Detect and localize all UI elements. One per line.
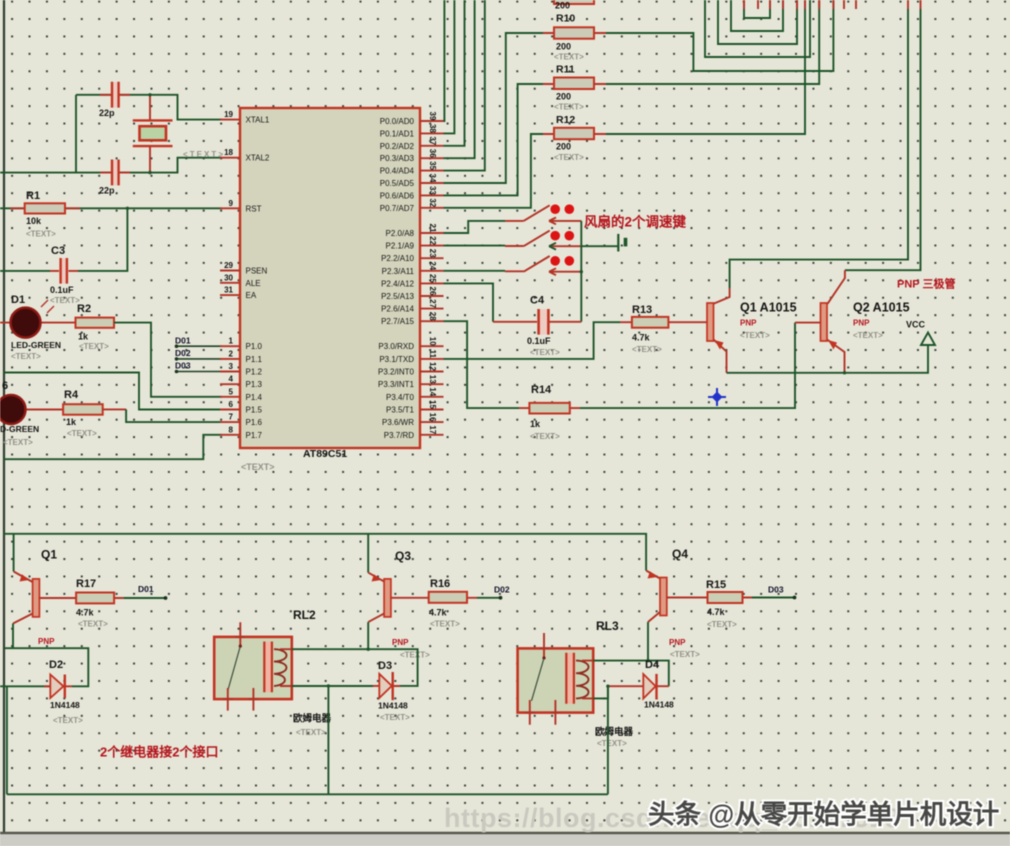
- wire P3.1 to R13: [444, 322, 621, 359]
- wire R10 right loop: [606, 0, 833, 71]
- wire P0.1 up: [444, 0, 455, 133]
- svg-text:4.7k: 4.7k: [76, 608, 95, 618]
- svg-text:<TEXT>: <TEXT>: [296, 728, 326, 737]
- wire U loop 3: [718, 0, 797, 44]
- svg-text:10: 10: [428, 337, 437, 346]
- svg-text:2: 2: [229, 349, 234, 358]
- svg-text:<TEXT>: <TEXT>: [554, 103, 584, 112]
- svg-text:ALE: ALE: [246, 279, 261, 288]
- svg-text:<TEXT>: <TEXT>: [3, 438, 33, 447]
- svg-text:8: 8: [229, 425, 234, 434]
- svg-text:39: 39: [428, 112, 437, 121]
- op-amp U1 AT89C51 body: [240, 108, 420, 448]
- pin 1 P1.0: [220, 345, 240, 347]
- wire R14 to Q2 base: [580, 323, 795, 409]
- svg-text:200: 200: [555, 1, 570, 11]
- svg-text:P2.2/A10: P2.2/A10: [381, 254, 414, 263]
- svg-text:<TEXT>: <TEXT>: [400, 651, 430, 660]
- svg-text:<TEXT>: <TEXT>: [530, 432, 560, 441]
- crystal X1 leads: [149, 95, 151, 173]
- svg-text:Q2 A1015: Q2 A1015: [853, 301, 910, 315]
- svg-text:头条 @从零开始学单片机设计: 头条 @从零开始学单片机设计: [648, 800, 999, 830]
- pin 9 RST: [220, 207, 240, 209]
- svg-text:P1.3: P1.3: [246, 380, 263, 389]
- switch SW1 contact: [549, 218, 581, 225]
- wire P0.7 to R12: [444, 134, 544, 208]
- svg-text:P2.1/A9: P2.1/A9: [386, 242, 415, 251]
- svg-text:PSEN: PSEN: [246, 267, 268, 276]
- svg-text:D02: D02: [175, 348, 191, 358]
- resistor R11: [543, 83, 606, 85]
- svg-text:<TEXT>: <TEXT>: [11, 352, 41, 361]
- wire P2.3 to switch 3: [444, 270, 506, 272]
- transistor Q3 collector: [368, 614, 384, 623]
- pin 35 P0.4/AD4: [420, 170, 444, 172]
- svg-text:0.1uF: 0.1uF: [527, 336, 551, 346]
- svg-text:21: 21: [428, 224, 437, 233]
- pin 3 P1.2: [220, 371, 240, 373]
- svg-text:200: 200: [556, 142, 571, 152]
- svg-text:37: 37: [428, 136, 437, 145]
- net stub D03: [175, 370, 179, 374]
- pin 28 P2.7/A15: [420, 320, 444, 322]
- svg-text:1k: 1k: [78, 332, 89, 342]
- svg-text:P1.1: P1.1: [246, 355, 263, 364]
- transistor Q2 base: [795, 322, 821, 324]
- switch SW2 dots: [550, 231, 560, 241]
- svg-text:R1: R1: [26, 190, 40, 202]
- svg-text:Q1 A1015: Q1 A1015: [740, 301, 797, 315]
- svg-text:7: 7: [229, 413, 234, 422]
- svg-text:26: 26: [428, 287, 437, 296]
- svg-text:23: 23: [428, 249, 437, 258]
- svg-text:LED-GREEN: LED-GREEN: [11, 340, 61, 350]
- svg-text:33: 33: [428, 186, 437, 195]
- bottom gray strip: [0, 835, 1010, 846]
- svg-text:PNP: PNP: [38, 637, 55, 646]
- svg-text:欧姆电器: 欧姆电器: [595, 726, 634, 738]
- transistor Q4 emitter: [646, 571, 660, 579]
- pin 32 P0.7/AD7: [420, 207, 444, 209]
- svg-text:34: 34: [428, 174, 437, 183]
- wire P0.0 up: [443, 0, 446, 121]
- svg-text:38: 38: [428, 124, 437, 133]
- svg-text:<TEXT>: <TEXT>: [79, 342, 109, 351]
- wire P0.6 to R11: [444, 84, 544, 195]
- svg-text:PNP: PNP: [392, 638, 409, 647]
- svg-text:D2: D2: [49, 659, 63, 671]
- transistor Q1: [707, 303, 714, 341]
- svg-text:11: 11: [428, 350, 437, 359]
- svg-text:R16: R16: [430, 578, 450, 590]
- svg-text:15: 15: [428, 400, 437, 409]
- svg-text:R14: R14: [531, 384, 552, 396]
- svg-text:6: 6: [229, 400, 234, 409]
- wire P0.4 up: [444, 0, 485, 171]
- capacitor C1 lead: [100, 94, 130, 96]
- svg-text:27: 27: [428, 299, 437, 308]
- wire R12 right loop: [606, 0, 805, 134]
- svg-text:32: 32: [428, 198, 437, 207]
- wire R17 to D01: [124, 597, 165, 599]
- svg-text:24: 24: [428, 261, 437, 270]
- svg-text:P0.4/AD4: P0.4/AD4: [380, 167, 415, 176]
- sheet border left: [3, 0, 5, 833]
- svg-text:14: 14: [428, 387, 437, 396]
- svg-text:4.7k: 4.7k: [429, 608, 448, 618]
- svg-text:P1.2: P1.2: [246, 368, 263, 377]
- svg-text:VCC: VCC: [906, 320, 926, 330]
- svg-text:28: 28: [428, 312, 437, 321]
- switch SW2 contact to battery: [549, 245, 581, 247]
- svg-text:PNP: PNP: [853, 319, 870, 328]
- pin 17 P3.7/RD: [420, 434, 444, 436]
- relay RL2: [214, 637, 292, 699]
- pin 24 P2.3/A11: [420, 270, 444, 272]
- transistor Q1b collector: [13, 614, 33, 624]
- wire XTAL1 net top: [76, 95, 222, 120]
- wire P2.0 to switch 1: [444, 221, 506, 233]
- pin 39 P0.0/AD0: [420, 120, 444, 122]
- svg-text:<TEXT>: <TEXT>: [530, 348, 560, 357]
- svg-text:5: 5: [229, 387, 234, 396]
- pin 23 P2.2/A10: [420, 257, 444, 259]
- svg-text:RL3: RL3: [596, 619, 619, 633]
- svg-text:22: 22: [428, 236, 437, 245]
- net stub D02: [175, 357, 179, 361]
- svg-text:<TEXT>: <TEXT>: [241, 462, 275, 472]
- transistor Q4 collector: [648, 612, 660, 622]
- wire XTAL2 net bottom: [0, 158, 222, 173]
- transistor Q4 base / resistor R15: [667, 597, 752, 599]
- wire R16 to D02: [477, 597, 500, 599]
- svg-text:R12: R12: [556, 114, 575, 126]
- transistor Q4: [660, 578, 667, 616]
- capacitor C2 lead: [100, 172, 130, 174]
- svg-text:10k: 10k: [26, 216, 42, 226]
- svg-text:Q1: Q1: [41, 548, 57, 562]
- svg-text:22p: 22p: [99, 186, 115, 196]
- svg-text:D01: D01: [138, 584, 154, 594]
- svg-text:D03: D03: [175, 361, 191, 371]
- wire P2.7 to R14: [444, 321, 520, 408]
- svg-text:P1.4: P1.4: [246, 393, 263, 402]
- transistor Q2 emitter: [827, 340, 845, 373]
- svg-text:<TEXT>: <TEXT>: [707, 620, 737, 629]
- svg-text:13: 13: [428, 375, 437, 384]
- svg-text:PNP: PNP: [740, 319, 757, 328]
- svg-text:EA: EA: [246, 291, 257, 300]
- relay RL2 lever: [228, 646, 241, 691]
- svg-text:1k: 1k: [66, 417, 77, 427]
- pin 27 P2.6/A14: [420, 308, 444, 310]
- svg-text:19: 19: [224, 110, 233, 119]
- svg-text:D1: D1: [11, 294, 25, 306]
- svg-text:P0.1/AD1: P0.1/AD1: [380, 129, 415, 138]
- svg-text:D-GREEN: D-GREEN: [0, 424, 39, 434]
- pin 12 P3.2/INT0: [420, 371, 444, 373]
- svg-text:R10: R10: [556, 13, 575, 25]
- svg-text:P3.1/TXD: P3.1/TXD: [379, 355, 414, 364]
- svg-text:4.7k: 4.7k: [632, 333, 651, 343]
- pin 14 P3.4/T0: [420, 396, 444, 398]
- transistor Q3 base / resistor R16: [391, 597, 477, 599]
- svg-text:<TEXT>: <TEXT>: [26, 230, 56, 239]
- wire RL2 to bottom rail: [327, 686, 329, 794]
- svg-text:P2.7/A15: P2.7/A15: [381, 317, 414, 326]
- svg-text:PNP 三极管: PNP 三极管: [897, 277, 955, 291]
- svg-text:31: 31: [224, 286, 233, 295]
- pin 18 XTAL2: [220, 157, 240, 159]
- wire P0.3 up: [444, 0, 475, 158]
- svg-text:18: 18: [224, 148, 233, 157]
- resistor R12: [543, 133, 606, 135]
- pin 2 P1.1: [220, 358, 240, 360]
- svg-text:1N4148: 1N4148: [50, 700, 80, 710]
- switch SW3 lever: [524, 256, 550, 272]
- LED D1: [0, 322, 76, 324]
- svg-text:风扇的2个调速键: 风扇的2个调速键: [584, 214, 687, 230]
- svg-text:25: 25: [428, 274, 437, 283]
- LED D6: [25, 409, 63, 411]
- svg-text:<TEXT>: <TEXT>: [430, 620, 460, 629]
- pin stubs top edge: [744, 0, 921, 9]
- svg-text:P2.0/A8: P2.0/A8: [386, 229, 415, 238]
- resistor R2: [76, 318, 115, 328]
- pin 30 ALE: [220, 282, 240, 284]
- pin 38 P0.1/AD1: [420, 132, 444, 134]
- relay RL3: [518, 648, 594, 712]
- wire U loop 1: [744, 0, 770, 18]
- crystal X1: [133, 120, 173, 146]
- svg-text:P0.7/AD7: P0.7/AD7: [380, 204, 415, 213]
- svg-text:<TEXT>: <TEXT>: [853, 331, 883, 340]
- svg-text:R13: R13: [632, 304, 652, 316]
- wire D4 to bottom rail: [607, 686, 609, 794]
- svg-text:XTAL1: XTAL1: [246, 116, 270, 125]
- svg-text:29: 29: [224, 261, 233, 270]
- svg-text:R4: R4: [64, 389, 79, 401]
- svg-text:1N4148: 1N4148: [644, 700, 674, 710]
- transistor Q2 collector net: [845, 9, 921, 270]
- power VCC: [921, 333, 935, 346]
- svg-text:D3: D3: [378, 660, 392, 672]
- relay RL3 coil: [566, 653, 575, 704]
- svg-text:<TEXT>: <TEXT>: [554, 53, 584, 62]
- svg-text:1k: 1k: [530, 419, 541, 429]
- resistor R13: [620, 321, 707, 323]
- wire border to P1.5: [3, 373, 222, 410]
- svg-text:P0.6/AD6: P0.6/AD6: [380, 191, 415, 200]
- svg-text:9: 9: [229, 199, 234, 208]
- transistor Q1 emitter: [714, 340, 727, 373]
- wire left down to bottom rail: [6, 686, 8, 794]
- svg-text:PNP: PNP: [669, 638, 686, 647]
- pin 36 P0.3/AD3: [420, 157, 444, 159]
- capacitor C4: [539, 309, 548, 334]
- net stub D01: [175, 344, 179, 348]
- svg-text:1: 1: [229, 337, 234, 346]
- svg-text:P1.6: P1.6: [246, 418, 263, 427]
- svg-text:欧姆电器: 欧姆电器: [293, 713, 332, 725]
- svg-text:P2.3/A11: P2.3/A11: [382, 267, 415, 276]
- wire P0.5 to R10: [444, 33, 544, 183]
- wire D2 loop: [0, 648, 88, 686]
- wire R15 to D03: [752, 597, 794, 599]
- svg-text:<TEXT>: <TEXT>: [53, 716, 83, 725]
- svg-text:P3.4/T0: P3.4/T0: [386, 393, 415, 402]
- pin 13 P3.3/INT1: [420, 383, 444, 385]
- svg-text:12: 12: [428, 362, 437, 371]
- pin 19 XTAL1: [220, 119, 240, 121]
- svg-text:30: 30: [224, 273, 233, 282]
- svg-text:C4: C4: [530, 295, 545, 307]
- wire R2 to P1.4: [114, 323, 222, 397]
- svg-text:22p: 22p: [99, 108, 115, 118]
- pin 15 P3.5/T1: [420, 409, 444, 411]
- svg-text:<TEXT>: <TEXT>: [554, 153, 584, 162]
- wire P2.4 to C4: [444, 283, 494, 321]
- svg-text:P1.0: P1.0: [246, 342, 263, 351]
- svg-text:<TEXT>: <TEXT>: [380, 713, 410, 722]
- pin 33 P0.6/AD6: [420, 194, 444, 196]
- switch SW3 contact: [549, 268, 581, 275]
- relay RL3 top pin: [539, 633, 549, 658]
- svg-text:D02: D02: [494, 585, 510, 595]
- wire bottom section top rail: [3, 534, 646, 571]
- svg-text:R2: R2: [77, 303, 91, 315]
- svg-text:16: 16: [428, 413, 437, 422]
- svg-text:C3: C3: [51, 245, 65, 257]
- switch SW2 lever: [524, 231, 550, 247]
- svg-text:P2.6/A14: P2.6/A14: [381, 305, 414, 314]
- capacitor C3: [50, 270, 78, 272]
- diode D2: [44, 685, 72, 687]
- resistor R9 (cut at top): [554, 0, 594, 4]
- svg-text:4: 4: [229, 375, 234, 384]
- svg-text:35: 35: [428, 161, 437, 170]
- svg-text:Q3: Q3: [395, 549, 411, 563]
- pin 7 P1.6: [220, 421, 240, 423]
- transistor Q1b emitter: [13, 534, 15, 572]
- svg-text:<TEXT>: <TEXT>: [597, 739, 627, 748]
- svg-text:P0.0/AD0: P0.0/AD0: [380, 117, 415, 126]
- pin 16 P3.6/WR: [420, 421, 444, 423]
- sheet border bottom: [0, 832, 1010, 835]
- resistor R14: [519, 407, 580, 409]
- resistor R4: [63, 404, 103, 415]
- svg-text:200: 200: [556, 42, 571, 52]
- svg-text:6: 6: [2, 380, 8, 392]
- relay RL2 bottom pins: [223, 688, 259, 711]
- transistor Q3 emitter: [367, 534, 369, 573]
- switch SW1 lever: [524, 205, 550, 221]
- svg-text:D01: D01: [175, 336, 191, 346]
- svg-text:200: 200: [556, 92, 571, 102]
- svg-text:<TEXT>: <TEXT>: [670, 650, 700, 659]
- svg-text:P1.5: P1.5: [246, 406, 263, 415]
- svg-text:<TEXT>: <TEXT>: [67, 429, 97, 438]
- svg-text:<TEXT>: <TEXT>: [632, 345, 662, 354]
- svg-text:Q4: Q4: [672, 547, 688, 561]
- relay RL2 top pin: [235, 622, 245, 646]
- switch SW3 dots: [550, 256, 560, 266]
- svg-text:P2.4/A12: P2.4/A12: [381, 279, 414, 288]
- svg-text:D4: D4: [645, 659, 660, 671]
- wire RST to C3 loop: [78, 208, 127, 271]
- pin 4 P1.3: [220, 383, 240, 385]
- junction dots crystal: [148, 93, 151, 96]
- svg-text:D03: D03: [768, 585, 784, 595]
- transistor Q2: [821, 303, 828, 341]
- svg-text:1N4148: 1N4148: [378, 701, 408, 711]
- pin 6 P1.5: [220, 409, 240, 411]
- relay RL3 coil leads: [582, 661, 593, 699]
- capacitor C4 leads: [493, 321, 581, 323]
- transistor Q3: [384, 579, 391, 617]
- pin 31 EA: [220, 294, 240, 296]
- wire bottom rail: [7, 793, 608, 795]
- capacitor C1: [111, 82, 119, 108]
- wire R11 right loop: [606, 0, 819, 84]
- pin 5 P1.4: [220, 396, 240, 398]
- pin 8 P1.7: [220, 434, 240, 436]
- battery B1: [617, 234, 619, 252]
- pin 25 P2.4/A12: [420, 282, 444, 284]
- pin 21 P2.0/A8: [420, 232, 444, 234]
- wire C3 left: [0, 270, 50, 272]
- diode D4: [608, 685, 669, 687]
- wire left link: [75, 95, 77, 173]
- svg-text:R15: R15: [706, 579, 726, 591]
- svg-text:RL2: RL2: [293, 608, 316, 622]
- wire switch column: [580, 221, 582, 322]
- node marker blue: [708, 388, 726, 406]
- svg-text:0.1uF: 0.1uF: [50, 285, 74, 295]
- svg-text:<TEXT>: <TEXT>: [50, 296, 80, 305]
- svg-text:P1.7: P1.7: [246, 431, 263, 440]
- wire P1.7 to border: [3, 435, 222, 459]
- pin 37 P0.2/AD2: [420, 145, 444, 147]
- svg-text:P3.0/RXD: P3.0/RXD: [378, 342, 414, 351]
- pin 26 P2.5/A13: [420, 295, 444, 297]
- capacitor C2: [111, 160, 119, 186]
- pin 22 P2.1/A9: [420, 245, 444, 247]
- transistor Q1b: [33, 579, 40, 617]
- svg-text:R11: R11: [556, 64, 575, 76]
- svg-text:2个继电器接2个接口: 2个继电器接2个接口: [100, 745, 218, 760]
- wire R4 to P1.6: [103, 408, 126, 410]
- svg-text:P3.2/INT0: P3.2/INT0: [378, 368, 415, 377]
- svg-text:R17: R17: [76, 578, 96, 590]
- svg-text:4.7k: 4.7k: [707, 607, 726, 617]
- relay RL2 coil leads: [280, 649, 292, 686]
- wire P2.1 to switch 2: [444, 245, 506, 247]
- relay RL3 lever: [532, 658, 545, 701]
- svg-text:P2.5/A13: P2.5/A13: [381, 292, 414, 301]
- svg-text:P3.6/WR: P3.6/WR: [382, 418, 414, 427]
- diode D3: [373, 685, 400, 687]
- wire U loop 2: [731, 0, 783, 31]
- wire P0.2 up: [444, 0, 465, 146]
- svg-text:AT89C51: AT89C51: [303, 448, 347, 460]
- svg-text:<TEXT>: <TEXT>: [78, 620, 108, 629]
- transistor Q1 collector net: [730, 9, 908, 288]
- transistor Q1b base / resistor R17: [39, 597, 123, 599]
- svg-text:17: 17: [428, 425, 437, 434]
- svg-text:P3.7/RD: P3.7/RD: [384, 431, 414, 440]
- svg-text:P0.2/AD2: P0.2/AD2: [380, 142, 415, 151]
